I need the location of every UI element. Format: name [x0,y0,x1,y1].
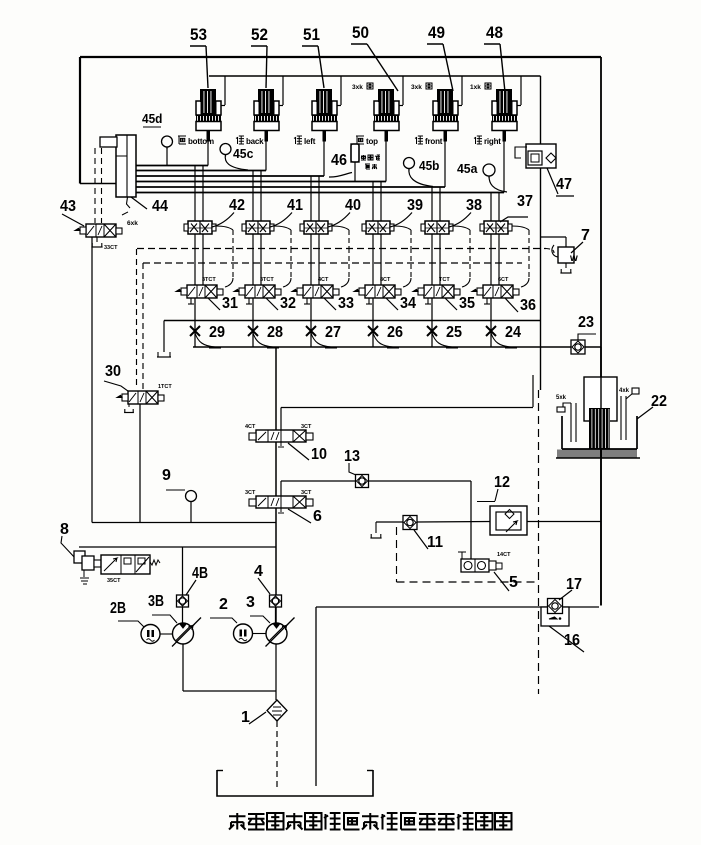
svg-text:47: 47 [556,176,572,193]
svg-text:9: 9 [162,467,171,484]
svg-text:w: w [569,253,578,264]
svg-text:left: left [304,137,316,146]
svg-text:4xk: 4xk [619,388,630,394]
svg-text:front: front [425,137,443,146]
svg-text:14CT: 14CT [497,552,511,558]
svg-text:top: top [366,137,378,146]
svg-text:37: 37 [517,193,533,210]
svg-text:51: 51 [303,25,320,44]
svg-text:33: 33 [338,295,354,312]
svg-text:3CT: 3CT [301,424,312,430]
svg-text:2: 2 [219,596,228,613]
svg-text:24: 24 [505,324,521,341]
svg-text:34: 34 [400,295,416,312]
svg-text:6xk: 6xk [127,220,138,227]
svg-text:3xk: 3xk [411,84,422,91]
svg-text:6CT: 6CT [498,277,509,283]
svg-text:3TCT: 3TCT [260,277,274,283]
svg-text:36: 36 [520,297,536,314]
svg-text:46: 46 [331,152,347,169]
svg-text:12: 12 [494,474,510,491]
svg-text:45b: 45b [419,158,439,173]
svg-text:17: 17 [566,576,582,593]
svg-text:44: 44 [152,198,168,215]
svg-text:right: right [484,137,501,146]
svg-text:42: 42 [229,197,245,214]
svg-text:4CT: 4CT [318,277,329,283]
svg-text:16: 16 [564,632,580,649]
svg-text:4B: 4B [192,565,208,582]
svg-text:49: 49 [428,23,445,42]
svg-text:25: 25 [446,324,462,341]
svg-text:39: 39 [407,197,423,214]
svg-text:52: 52 [251,25,268,44]
svg-text:4: 4 [254,563,263,580]
svg-text:10: 10 [311,446,327,463]
svg-text:22: 22 [651,393,667,410]
svg-text:6: 6 [313,508,322,525]
svg-text:3: 3 [246,594,255,611]
svg-text:7: 7 [581,227,590,244]
svg-text:3TCT: 3TCT [202,277,216,283]
svg-text:30: 30 [105,363,121,380]
svg-text:3xk: 3xk [352,84,363,91]
svg-text:29: 29 [209,324,225,341]
svg-text:27: 27 [325,324,341,341]
svg-text:28: 28 [267,324,283,341]
svg-text:50: 50 [352,23,369,42]
svg-text:bottom: bottom [188,137,214,146]
svg-text:1xk: 1xk [470,84,481,91]
svg-text:53: 53 [190,25,207,44]
svg-text:4CT: 4CT [245,424,256,430]
svg-text:back: back [246,137,264,146]
svg-text:2B: 2B [110,600,126,617]
svg-text:40: 40 [345,197,361,214]
svg-text:32: 32 [280,295,296,312]
svg-text:41: 41 [287,197,303,214]
svg-text:11: 11 [427,534,443,551]
svg-text:35: 35 [459,295,475,312]
svg-text:23: 23 [578,314,594,331]
svg-text:38: 38 [466,197,482,214]
svg-text:43: 43 [60,198,76,215]
svg-text:8: 8 [60,521,69,538]
svg-text:1TCT: 1TCT [158,384,172,390]
svg-text:13: 13 [344,448,360,465]
svg-text:45d: 45d [142,111,162,126]
svg-text:3CT: 3CT [245,490,256,496]
svg-text:35CT: 35CT [107,578,121,584]
svg-text:31: 31 [222,295,238,312]
svg-text:3B: 3B [148,593,164,610]
svg-text:45a: 45a [457,161,478,176]
svg-text:3CT: 3CT [301,490,312,496]
svg-text:48: 48 [486,23,503,42]
svg-text:33CT: 33CT [104,245,118,251]
svg-text:TCT: TCT [439,277,450,283]
svg-text:5xk: 5xk [556,395,567,401]
svg-text:1: 1 [241,709,250,726]
svg-text:8CT: 8CT [380,277,391,283]
svg-text:45c: 45c [233,146,253,161]
svg-text:26: 26 [387,324,403,341]
